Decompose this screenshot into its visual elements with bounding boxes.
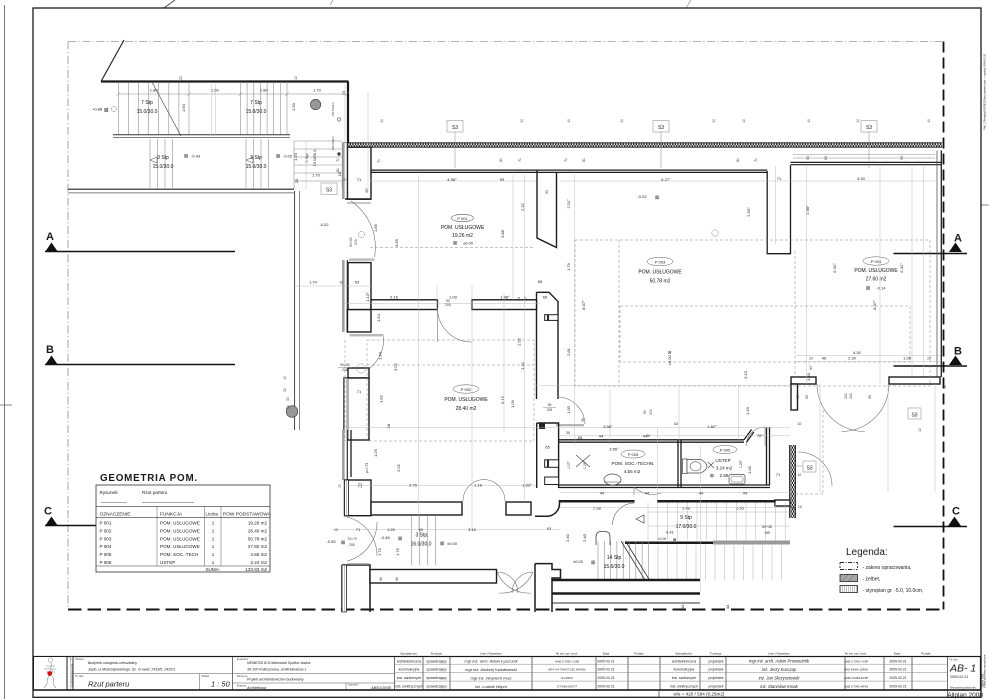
svg-text:4.55 m2: 4.55 m2 [250, 552, 267, 557]
washbasin P005 [604, 474, 621, 485]
corridor east exterior wall [790, 445, 796, 518]
svg-text:6.27°: 6.27° [661, 177, 671, 182]
hall top wall left [559, 500, 635, 503]
svg-text:2.38: 2.38 [593, 506, 602, 511]
door P005 bottom [634, 487, 661, 495]
svg-text:5.72: 5.72 [500, 395, 505, 404]
svg-text:36: 36 [379, 577, 383, 581]
svg-text:POM. USŁUGOWE: POM. USŁUGOWE [160, 544, 200, 549]
svg-text:2009-02-21: 2009-02-21 [597, 659, 614, 663]
svg-text:mgr inż. arch. Adam Łyszczek: mgr inż. arch. Adam Łyszczek [464, 659, 518, 664]
svg-text:-0.14: -0.14 [876, 286, 886, 291]
svg-text:Projekt architektoniczno-budow: Projekt architektoniczno-budowlany [247, 678, 304, 682]
svg-text:POM. USŁUGOWE: POM. USŁUGOWE [160, 536, 200, 541]
svg-text:27: 27 [524, 297, 528, 301]
svg-text:S3: S3 [806, 465, 812, 471]
svg-text:44: 44 [680, 604, 685, 609]
svg-text:1.03°: 1.03° [522, 483, 532, 488]
svg-text:1.79: 1.79 [566, 262, 571, 271]
logo stick figure [44, 658, 56, 688]
svg-text:76°: 76° [757, 433, 763, 438]
svg-text:90=90: 90=90 [340, 363, 350, 367]
S3 southeast [796, 461, 816, 472]
svg-text:205: 205 [547, 408, 553, 412]
svg-text:1.08: 1.08 [903, 356, 912, 361]
SW corner block outlined [342, 565, 370, 612]
svg-text:POM. USŁUGOWE: POM. USŁUGOWE [441, 225, 485, 231]
cross mark P005 [576, 455, 590, 467]
svg-text:6.41°: 6.41° [832, 263, 837, 273]
svg-text:36: 36 [566, 431, 570, 435]
svg-text:AB/01/10/08: AB/01/10/08 [370, 686, 391, 690]
room P004 label [854, 257, 898, 292]
svg-text:1.09: 1.09 [510, 399, 515, 408]
svg-text:60: 60 [419, 527, 424, 532]
west wall insulated segment [343, 430, 351, 480]
svg-text:205: 205 [354, 239, 358, 245]
svg-text:⊠: ⊠ [341, 540, 345, 546]
svg-text:81: 81 [582, 158, 586, 162]
svg-text:GT-834/14/2/77: GT-834/14/2/77 [557, 685, 577, 689]
svg-text:18: 18 [386, 423, 391, 428]
svg-text:10: 10 [712, 119, 716, 123]
svg-text:1: 1 [212, 560, 215, 565]
west exterior wall segment 1 [348, 147, 372, 199]
svg-text:-0.02: -0.02 [283, 154, 293, 159]
top wall double line [559, 439, 744, 441]
svg-text:15.0/30.0: 15.0/30.0 [153, 164, 174, 170]
fold mark top 2 [330, 0, 333, 5]
svg-text:15.0/30.0: 15.0/30.0 [246, 109, 267, 115]
svg-text:NEMESIS B.D.Makowski Spółka Ja: NEMESIS B.D.Makowski Spółka Jawna [247, 661, 310, 665]
svg-text:81: 81 [499, 158, 503, 162]
svg-text:S3: S3 [452, 125, 458, 131]
svg-text:63: 63 [805, 395, 809, 399]
svg-text:konstrukcyjne: konstrukcyjne [399, 668, 420, 672]
svg-text:Plik: C:\Projekty\NEMESIS\rzut: Plik: C:\Projekty\NEMESIS\rzut parteru.n… [983, 53, 987, 130]
svg-text:⊠: ⊠ [398, 536, 402, 542]
svg-text:1.70: 1.70 [312, 173, 321, 178]
door P001/P002 [438, 308, 472, 342]
svg-text:2.59: 2.59 [720, 473, 729, 478]
svg-text:185: 185 [764, 531, 770, 535]
svg-text:P 004: P 004 [871, 259, 882, 264]
svg-text:2009-02-21: 2009-02-21 [597, 685, 614, 689]
svg-text:2.16: 2.16 [390, 295, 399, 300]
svg-text:Imię i Nazwisko: Imię i Nazwisko [480, 652, 502, 656]
svg-text:14 Stp: 14 Stp [607, 555, 622, 561]
svg-text:1.25: 1.25 [373, 448, 378, 457]
door D6 double door south opens down [497, 572, 533, 593]
svg-text:60°: 60° [809, 364, 813, 370]
svg-text:50.78 m2: 50.78 m2 [650, 279, 671, 285]
svg-text:P 005: P 005 [100, 552, 112, 557]
terrace column circle [310, 99, 320, 109]
svg-text:projekt budowlany nr 01: projekt budowlany nr 01 [70, 663, 73, 687]
svg-text:P 002: P 002 [100, 528, 112, 533]
svg-text:42: 42 [674, 421, 679, 426]
svg-text:30: 30 [283, 388, 287, 392]
svg-text:±0.00: ±0.00 [658, 537, 667, 541]
svg-text:250: 250 [349, 543, 355, 547]
svg-text:2009-02-21: 2009-02-21 [950, 675, 968, 679]
svg-text:44: 44 [600, 491, 605, 496]
door vestibule double swing [463, 480, 505, 502]
fold mark top 3 [686, 0, 691, 8]
svg-text:53: 53 [355, 280, 360, 285]
S3 box left stairs [321, 183, 337, 195]
svg-text:10: 10 [798, 422, 802, 426]
svg-text:1.75: 1.75 [377, 547, 382, 556]
svg-text:2009-02-21: 2009-02-21 [889, 659, 906, 663]
svg-text:2009-02-21: 2009-02-21 [889, 668, 906, 672]
door D1 west P001 [351, 201, 375, 257]
stair-bay SW outlined block [535, 564, 561, 612]
svg-text:1.98°: 1.98° [500, 295, 510, 300]
svg-text:6.41: 6.41 [666, 530, 675, 535]
fold tick right frame [981, 204, 989, 206]
svg-text:44: 44 [725, 604, 730, 609]
svg-text:Allplan 2008: Allplan 2008 [947, 692, 983, 699]
svg-text:10: 10 [294, 76, 298, 80]
svg-text:2.40: 2.40 [582, 533, 587, 542]
svg-text:7 Stp: 7 Stp [141, 100, 153, 106]
svg-text:-0.02: -0.02 [319, 222, 329, 227]
hall corner step outlined [535, 500, 560, 516]
svg-text:220: 220 [844, 393, 848, 399]
svg-text:81: 81 [736, 158, 740, 162]
svg-text:205: 205 [445, 303, 451, 307]
svg-text:1.60: 1.60 [181, 103, 186, 112]
svg-text:2.30: 2.30 [848, 356, 857, 361]
svg-text:Imię i Nazwisko: Imię i Nazwisko [768, 652, 790, 656]
svg-text:6.41°: 6.41° [899, 263, 904, 273]
table row values block 2 [670, 659, 723, 688]
svg-text:POM. USŁUGOWE: POM. USŁUGOWE [444, 397, 488, 403]
svg-text:inż. Stanisław Kmak: inż. Stanisław Kmak [760, 684, 798, 689]
section marker A left [45, 231, 235, 252]
svg-text:1.00: 1.00 [747, 465, 752, 474]
svg-text:46: 46 [822, 356, 827, 361]
svg-text:USTEP: USTEP [160, 560, 175, 565]
svg-text:2009-02-21: 2009-02-21 [889, 685, 906, 689]
svg-text:ANB-2-8346-10/85: ANB-2-8346-10/85 [843, 676, 868, 680]
svg-text:sprawdzający: sprawdzający [426, 676, 447, 680]
SW chimney block outlined [345, 480, 372, 516]
north inner face P004 [791, 161, 942, 163]
svg-text:50.78 m2: 50.78 m2 [248, 536, 268, 541]
svg-text:3 Stp: 3 Stp [157, 155, 169, 161]
svg-text:-0.43: -0.43 [191, 154, 201, 159]
svg-text:4.69: 4.69 [394, 238, 399, 247]
svg-text:p=0.73: p=0.73 [365, 463, 369, 474]
svg-text:-0.02: -0.02 [637, 194, 647, 199]
svg-text:P 006: P 006 [100, 560, 112, 565]
zakres boundary right [943, 42, 945, 610]
svg-text:1.29°: 1.29° [583, 460, 587, 469]
svg-text:1.43: 1.43 [745, 406, 750, 415]
door D5 corridor/ustep area [746, 427, 765, 446]
building cut diagonal top-left [101, 40, 124, 82]
svg-text:1.82°: 1.82° [707, 424, 717, 429]
9 stp upper gray grid [648, 503, 790, 541]
svg-text:10: 10 [339, 281, 343, 285]
svg-text:63: 63 [547, 526, 552, 531]
svg-text:B: B [954, 346, 962, 358]
3 Stp treads vestibule [412, 516, 436, 565]
left cells dividers [73, 673, 395, 675]
svg-text:65: 65 [545, 445, 550, 450]
svg-text:71: 71 [358, 482, 363, 487]
svg-text:15.0/30.0: 15.0/30.0 [246, 164, 267, 170]
door D3 west double swing [347, 517, 377, 561]
svg-text:OZNACZENIE: OZNACZENIE [100, 512, 131, 518]
west chimney block mid [344, 378, 369, 440]
svg-text:inst. elektrycznych: inst. elektrycznych [670, 685, 698, 689]
svg-text:A: A [46, 231, 54, 243]
title block bottom heavy [34, 689, 981, 691]
stair direction arrow [636, 515, 644, 523]
svg-text:10: 10 [283, 376, 287, 380]
svg-text:Rzut-parteru poziom.ndw: Rzut-parteru poziom.ndw [950, 687, 976, 690]
svg-text:POM. USŁUGOWE: POM. USŁUGOWE [854, 268, 898, 274]
svg-text:220: 220 [849, 393, 853, 399]
svg-text:4.30: 4.30 [857, 176, 866, 181]
svg-text:S3: S3 [326, 188, 332, 194]
dotted canopy corner [790, 410, 823, 494]
svg-text:10: 10 [807, 119, 811, 123]
svg-text:2.02: 2.02 [396, 463, 401, 472]
dim row west entry [295, 285, 371, 287]
stair landing double line [113, 134, 290, 136]
svg-text:4.96°: 4.96° [447, 177, 457, 182]
svg-text:POM. SOC.-TECH: POM. SOC.-TECH [160, 552, 198, 557]
svg-text:±0.00: ±0.00 [463, 241, 474, 246]
svg-text:inż. Jerzy Kurczap: inż. Jerzy Kurczap [762, 667, 797, 672]
svg-text:10: 10 [341, 90, 346, 95]
svg-text:ANB V.7342-48/93: ANB V.7342-48/93 [843, 685, 868, 689]
svg-text:sprawdzający: sprawdzający [426, 659, 447, 663]
south exterior wall P002 outlined [370, 570, 497, 584]
section marker B left [45, 344, 235, 365]
svg-text:23: 23 [809, 357, 813, 361]
svg-text:mgr inż. Andrzej Kwiatkowski: mgr inż. Andrzej Kwiatkowski [465, 667, 517, 672]
svg-text:USTEP: USTEP [715, 458, 730, 463]
svg-text:65: 65 [578, 435, 583, 440]
svg-text:S-128/01: S-128/01 [561, 676, 573, 680]
svg-text:-0.50: -0.50 [326, 539, 336, 544]
svg-text:10: 10 [380, 119, 384, 123]
14 Stp treads [598, 541, 648, 580]
terrace lower edge double line [68, 188, 294, 190]
svg-text:ANB V.7342-I-1/98: ANB V.7342-I-1/98 [554, 659, 579, 663]
svg-text:S3: S3 [911, 412, 917, 418]
svg-text:53: 53 [900, 156, 904, 160]
svg-text:1.25: 1.25 [387, 527, 396, 532]
3 Stp lower flight 1 [150, 139, 173, 188]
svg-text:71: 71 [357, 177, 362, 182]
dim extension verticals between flights [211, 84, 213, 136]
row lines table [395, 664, 948, 681]
svg-text:1.27°: 1.27° [567, 460, 571, 469]
S3 top 1 [447, 121, 463, 169]
section marker C left [44, 506, 120, 527]
svg-text:⊠: ⊠ [184, 154, 188, 160]
svg-text:±0.00 ⊠: ±0.00 ⊠ [667, 351, 672, 365]
svg-text:1.00: 1.00 [449, 295, 458, 300]
svg-text:71: 71 [754, 158, 758, 162]
svg-text:⊠: ⊠ [453, 241, 457, 247]
svg-text:1: 1 [212, 521, 215, 526]
svg-text:Podpis: Podpis [634, 652, 644, 656]
svg-text:1.00: 1.00 [566, 405, 571, 414]
svg-text:16.0/30.0: 16.0/30.0 [411, 542, 432, 548]
svg-text:⊠: ⊠ [673, 537, 676, 542]
washbasin P006 [729, 475, 745, 485]
handrail loop [596, 532, 610, 546]
svg-text:architektoniczna: architektoniczna [397, 659, 422, 663]
svg-text:2.40: 2.40 [565, 533, 570, 542]
5 Stp side stair treads [294, 141, 342, 189]
room P002 label [444, 385, 488, 412]
svg-text:Obiekt: Obiekt [75, 657, 84, 661]
svg-text:Specjalność:: Specjalność: [675, 652, 693, 656]
svg-text:3.33: 3.33 [806, 372, 811, 381]
svg-text:P 001: P 001 [457, 216, 468, 221]
svg-text:8.07°: 8.07° [872, 300, 877, 310]
svg-text:71: 71 [776, 472, 781, 477]
svg-text:1.55: 1.55 [736, 506, 745, 511]
west gap piece [348, 368, 369, 378]
svg-text:71: 71 [777, 176, 782, 181]
svg-text:Branża: Branża [237, 683, 247, 687]
svg-text:3 Stp: 3 Stp [250, 155, 262, 161]
SE corner walls [775, 500, 790, 506]
zakres boundary left [67, 42, 69, 610]
svg-text:1.75: 1.75 [395, 547, 400, 556]
svg-text:1.50: 1.50 [291, 102, 296, 111]
svg-text:Allplan 2008: Allplan 2008 [982, 673, 985, 687]
north inner wall face P001-P003 double line [367, 169, 767, 171]
svg-text:GP-I-U4-734/2/71/91 K/44/01: GP-I-U4-734/2/71/91 K/44/01 [548, 668, 586, 672]
dim line above stairs [116, 76, 381, 227]
svg-text:3 Stp.: 3 Stp. [415, 533, 428, 539]
bottom wall [559, 484, 770, 486]
svg-text:53: 53 [806, 156, 810, 160]
svg-text:3.52: 3.52 [393, 362, 398, 371]
svg-text:20: 20 [294, 178, 299, 183]
svg-text:10: 10 [620, 119, 624, 123]
svg-text:27.60 m2: 27.60 m2 [866, 277, 887, 283]
svg-text:71: 71 [336, 158, 340, 162]
svg-text:2.52: 2.52 [517, 337, 522, 346]
svg-text:20: 20 [179, 76, 183, 80]
room P006 label [710, 446, 737, 479]
fold mark top 1 [164, 0, 175, 8]
svg-text:S3: S3 [658, 125, 664, 131]
14 stp diagonals [621, 541, 645, 580]
svg-text:sprawdzający: sprawdzający [426, 668, 447, 672]
svg-text:C: C [44, 506, 52, 518]
svg-text:28.40 m2: 28.40 m2 [456, 406, 477, 412]
svg-text:9 Stp: 9 Stp [680, 515, 692, 521]
east wall ustep [766, 427, 768, 485]
svg-text:4.55 m2: 4.55 m2 [624, 469, 641, 474]
svg-text:⊠: ⊠ [276, 154, 280, 160]
svg-text:19.26 m2: 19.26 m2 [248, 521, 268, 526]
svg-text:2.32: 2.32 [520, 202, 525, 211]
svg-text:projektant: projektant [709, 685, 724, 689]
svg-text:Funkcja:: Funkcja: [710, 652, 722, 656]
svg-text:⊠: ⊠ [866, 286, 870, 292]
section marker C right [894, 506, 968, 527]
svg-text:7 Stp: 7 Stp [250, 100, 262, 106]
svg-text:10: 10 [520, 119, 524, 123]
svg-text:POW PODSTAWOWA: POW PODSTAWOWA [223, 512, 272, 518]
stair core upper outlined wall [537, 171, 557, 248]
svg-text:133.83 m2: 133.83 m2 [245, 567, 267, 572]
svg-text:PIP PV/2.1: PIP PV/2.1 [331, 102, 335, 116]
svg-text:44: 44 [699, 491, 704, 496]
zakres boundary bottom [68, 609, 944, 611]
cell dividers vertical [232, 657, 947, 691]
svg-text:1.18: 1.18 [474, 483, 483, 488]
svg-text:3.56°: 3.56° [603, 424, 613, 429]
svg-text:205: 205 [342, 368, 348, 372]
stair mid black band [625, 542, 713, 545]
svg-text:Nr ark.: Nr ark. [950, 658, 959, 662]
svg-text:30: 30 [286, 397, 290, 401]
svg-text:71: 71 [357, 389, 362, 394]
svg-text:POM. USŁUGOWE: POM. USŁUGOWE [160, 528, 200, 533]
svg-text:3.13: 3.13 [743, 370, 748, 379]
west wall segment 2 with P001/P002 stub [343, 260, 348, 332]
svg-text:3.24 m2: 3.24 m2 [250, 560, 267, 565]
svg-text:53: 53 [796, 395, 800, 399]
svg-text:Funkcja:: Funkcja: [431, 652, 443, 656]
svg-text:1: 1 [212, 552, 215, 557]
svg-text:P 005: P 005 [628, 452, 639, 457]
svg-text:Nr ew. upr. bud.:: Nr ew. upr. bud.: [845, 652, 868, 656]
svg-text:PIP PV/2.1: PIP PV/2.1 [331, 136, 335, 150]
svg-text:ANB V.7342-I-1/98: ANB V.7342-I-1/98 [843, 659, 868, 663]
svg-text:1.70: 1.70 [313, 88, 322, 93]
svg-text:±0.00: ±0.00 [573, 559, 584, 564]
svg-text:SUMA:: SUMA: [205, 567, 220, 572]
svg-text:Rysunek:: Rysunek: [100, 490, 119, 495]
svg-text:82+38: 82+38 [762, 525, 772, 529]
svg-text:53: 53 [943, 385, 947, 389]
svg-text:⊠: ⊠ [591, 560, 595, 566]
svg-text:65: 65 [543, 295, 548, 300]
svg-text:10: 10 [798, 473, 802, 477]
svg-text:53: 53 [868, 395, 872, 399]
table headers [400, 652, 931, 656]
svg-text:w/s = 420 / 594 (0.25m2): w/s = 420 / 594 (0.25m2) [674, 692, 725, 697]
svg-text:2.50°: 2.50° [746, 207, 751, 217]
svg-text:- zakres opracowania,: - zakres opracowania, [863, 565, 912, 571]
svg-text:P 005: P 005 [720, 448, 731, 453]
svg-text:POM. USŁUGOWE: POM. USŁUGOWE [160, 521, 200, 526]
svg-text:55: 55 [792, 506, 797, 511]
room P001 label [441, 214, 485, 246]
3 Stp lower flight 2 [246, 139, 269, 188]
svg-text:10: 10 [856, 119, 860, 123]
core column south outlined [537, 423, 559, 488]
svg-text:C: C [952, 506, 960, 518]
svg-text:P 001: P 001 [100, 521, 112, 526]
svg-text:inst. elektrycznych: inst. elektrycznych [395, 685, 423, 689]
